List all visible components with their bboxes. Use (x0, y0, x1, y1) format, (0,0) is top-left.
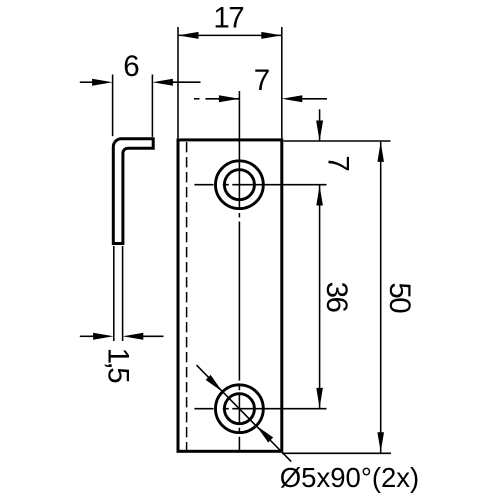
dimension line 1.5 left tail (80, 335, 95, 337)
dimension line 17 (178, 34, 282, 36)
dimension line 1.5 right tail (142, 335, 164, 337)
side view L-profile outline (113, 139, 153, 244)
arrowhead 7 side down (316, 121, 323, 142)
countersink leader line (197, 365, 292, 462)
svg-text:Ø5x90°(2x): Ø5x90°(2x) (280, 462, 419, 493)
arrowhead 6 left (92, 79, 113, 86)
extension line 1.5 left (113, 246, 115, 341)
dimension line 6 right tail (172, 81, 201, 83)
front view plate outline (178, 140, 282, 451)
dimension 7 side upper arrow shaft (319, 109, 321, 141)
extension line top edge right (284, 140, 391, 142)
extension line bottom edge right (282, 452, 391, 454)
countersink leader arrowhead upper (206, 375, 223, 392)
bottom hole inner circle (224, 394, 254, 424)
countersink leader arrowhead lower (256, 426, 273, 443)
vertical centerline of holes (238, 91, 240, 451)
dimension line 7 top right tail (300, 98, 327, 100)
extension line 6 right (151, 75, 153, 137)
svg-text:6: 6 (123, 50, 139, 83)
svg-text:7: 7 (321, 155, 354, 171)
hidden edge dashed line (186, 142, 188, 450)
arrowhead 7 top right (282, 95, 303, 102)
svg-text:50: 50 (383, 282, 416, 313)
arrowhead 36 bottom (316, 388, 323, 408)
svg-text:7: 7 (254, 64, 270, 97)
svg-text:1,5: 1,5 (102, 348, 135, 384)
top hole inner circle (224, 170, 254, 200)
dimension line 7 top left segment (206, 98, 240, 100)
arrowhead 1.5 right (123, 333, 144, 340)
arrowhead 17 left (178, 32, 199, 39)
dimension line 6 left tail (80, 81, 95, 83)
extension line 17 left (177, 27, 179, 138)
arrowhead 7 side up / 36 top (316, 186, 323, 206)
extension line 1.5 right (122, 246, 124, 341)
bottom hole countersink circle (216, 385, 264, 433)
svg-text:17: 17 (213, 2, 243, 35)
dimension line 36 (319, 186, 321, 408)
svg-text:36: 36 (320, 282, 353, 313)
extension line 6 left (112, 75, 114, 137)
arrowhead 17 right (261, 32, 282, 39)
dimension line 7 top dash (194, 98, 200, 100)
arrowhead 1.5 left (93, 333, 114, 340)
horizontal centerline top hole (194, 184, 326, 186)
top hole countersink circle (216, 161, 264, 209)
arrowhead 50 top (377, 142, 384, 162)
arrowhead 7 top left (219, 95, 240, 102)
dimension line 50 (380, 142, 382, 453)
horizontal centerline bottom hole (194, 408, 326, 410)
extension line 17 right (281, 27, 283, 138)
arrowhead 6 right (152, 79, 173, 86)
arrowhead 50 bottom (377, 432, 384, 452)
